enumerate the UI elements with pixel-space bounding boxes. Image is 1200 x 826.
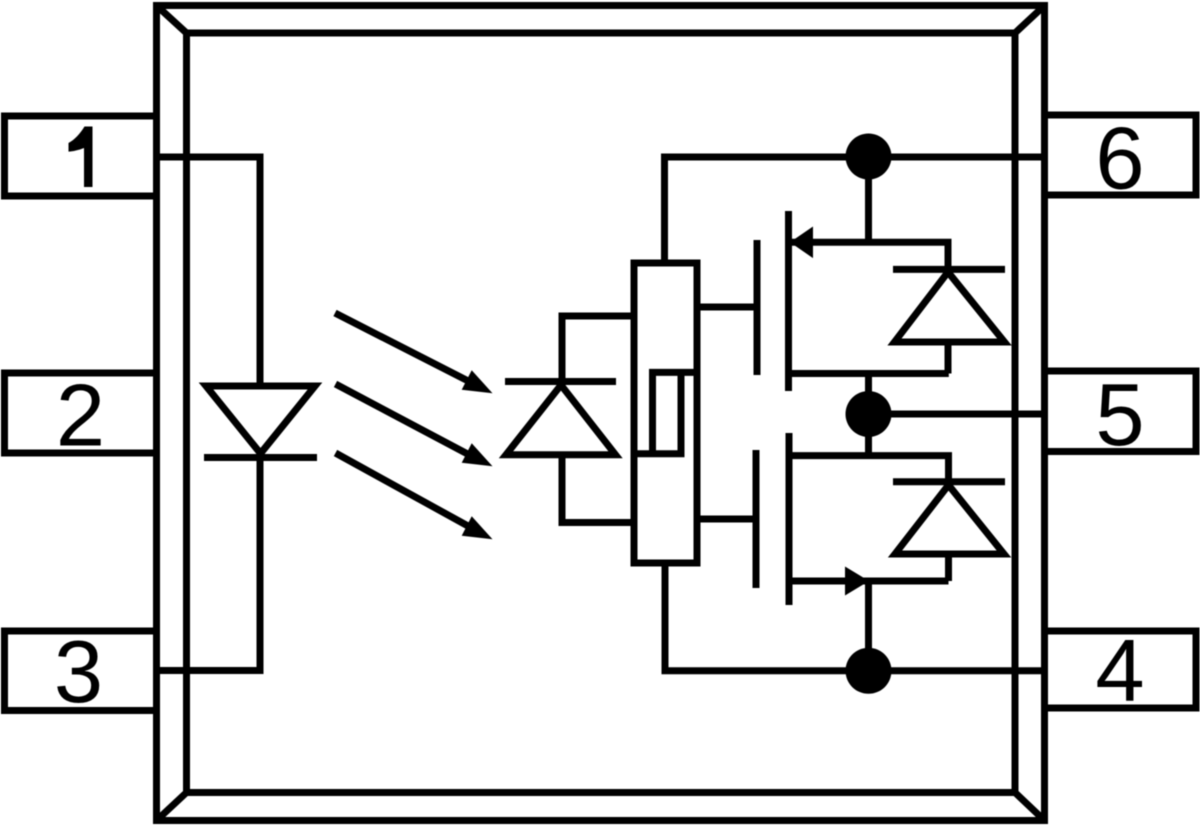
svg-text:4: 4 — [1095, 621, 1144, 720]
svg-text:3: 3 — [54, 622, 103, 721]
svg-text:2: 2 — [56, 365, 105, 464]
svg-text:5: 5 — [1095, 365, 1144, 464]
svg-text:6: 6 — [1095, 108, 1144, 207]
